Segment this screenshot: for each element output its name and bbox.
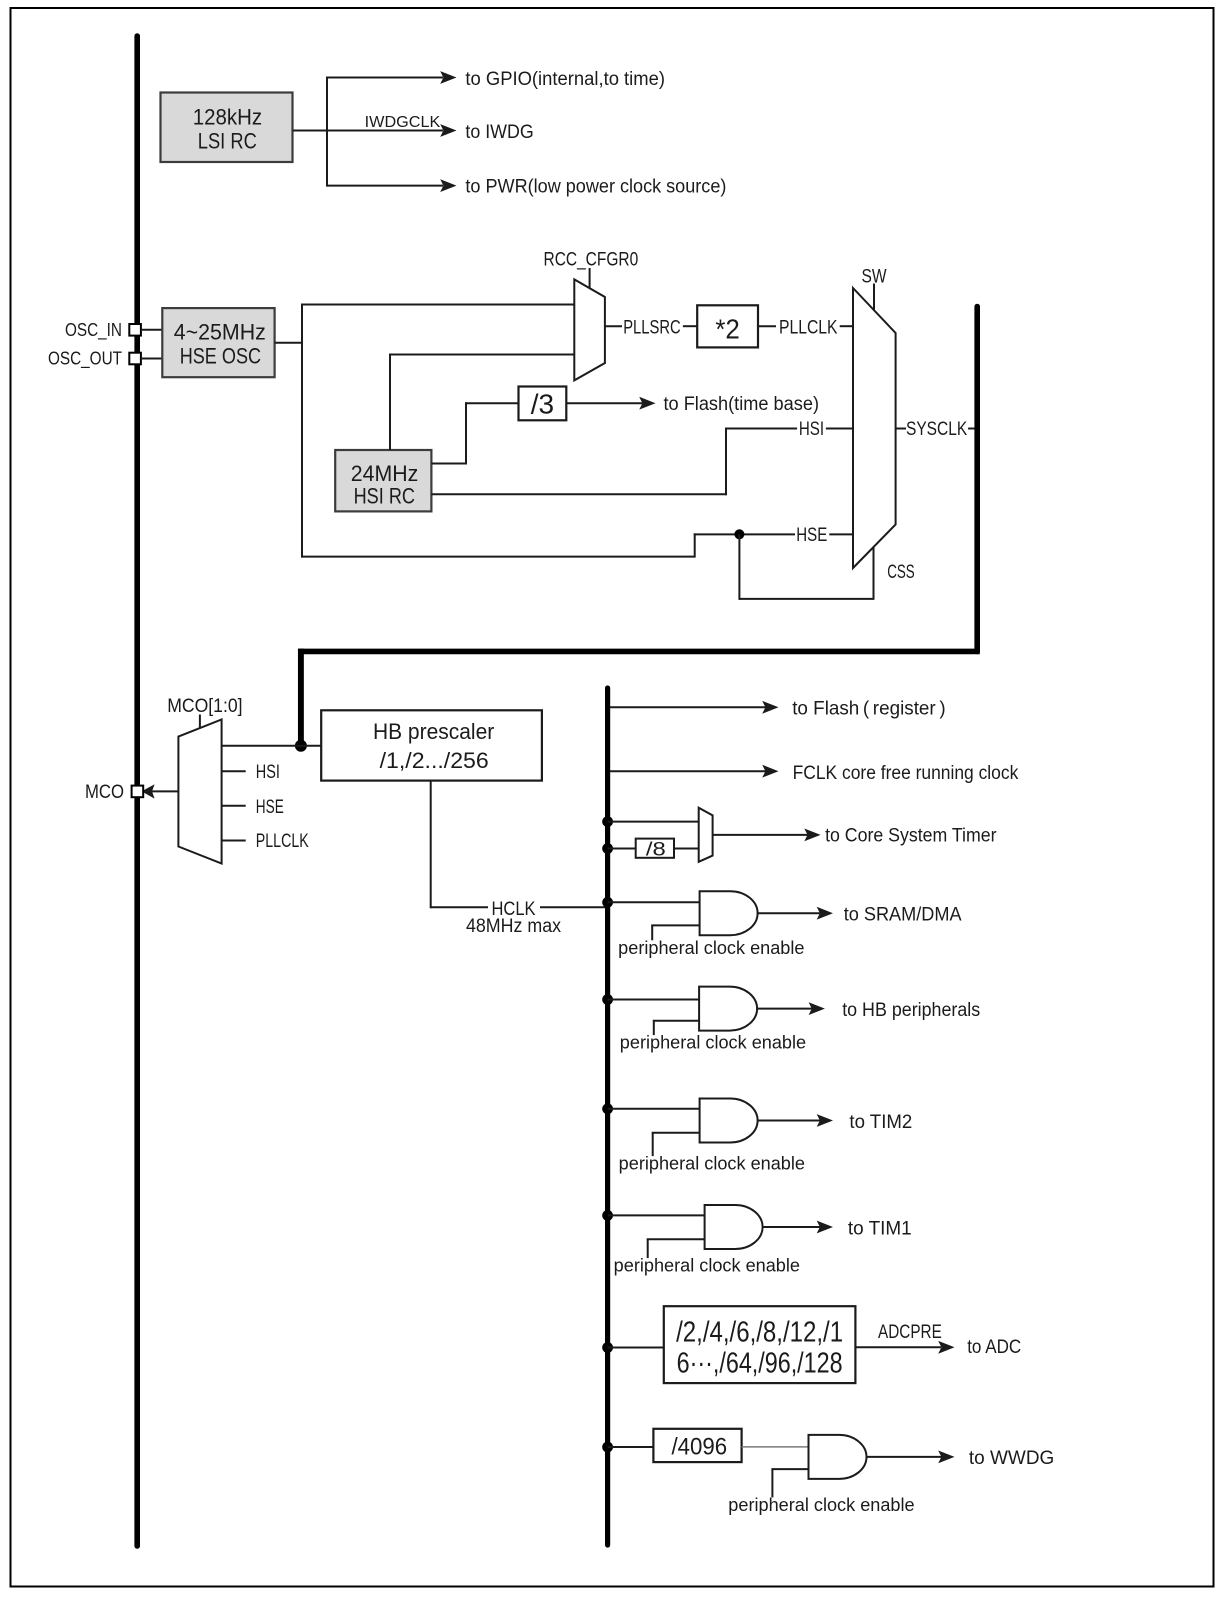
arrow to WWDG: [938, 1451, 954, 1464]
wire /4096 to WWDG gate: [742, 1446, 809, 1448]
wire enable input TIM2: [652, 1133, 654, 1156]
wire HSE into SW mux left part: [694, 533, 795, 535]
svg-text:to ADC: to ADC: [967, 1337, 1021, 1358]
wire HSE input to MCO mux: [222, 805, 246, 807]
oscillator block 128kHz LSI RC: [161, 93, 293, 163]
svg-text:peripheral clock enable: peripheral clock enable: [619, 1154, 805, 1174]
svg-text:HB prescaler: HB prescaler: [373, 719, 494, 744]
wire MCO[1:0] select into mux: [199, 715, 201, 732]
svg-text:ADCPRE: ADCPRE: [878, 1322, 942, 1343]
wire clock input TIM2: [608, 1108, 700, 1110]
wire enable input SRAM/DMA: [651, 925, 653, 940]
svg-text:128kHz: 128kHz: [193, 105, 262, 130]
wire HSI to /3 divider: [431, 463, 466, 465]
svg-text:to TIM2: to TIM2: [849, 1112, 912, 1133]
arrow to ADC: [938, 1341, 954, 1354]
svg-text:peripheral clock enable: peripheral clock enable: [620, 1033, 806, 1053]
arrow to PWR: [440, 179, 456, 192]
wire /3 to Flash time base: [566, 402, 642, 404]
wire CSS horizontal: [739, 598, 874, 600]
svg-text:/1,/2.../256: /1,/2.../256: [380, 748, 489, 773]
arrow MCO output (left): [142, 784, 155, 798]
wire timer direct input: [608, 821, 699, 823]
wire SW select into mux: [873, 284, 875, 312]
svg-text:*2: *2: [715, 314, 740, 345]
svg-text:24MHz: 24MHz: [351, 461, 419, 486]
svg-text:MCO: MCO: [85, 782, 124, 803]
wire SYSCLK to thick bus: [968, 428, 977, 430]
and-gate HB-peripherals: [699, 987, 757, 1031]
and-gate SRAM/DMA: [700, 891, 758, 935]
wire *2 to PLLCLK: [758, 325, 776, 327]
wire output TIM2: [757, 1120, 830, 1122]
SYSCLK thick bus drop to MCO/HB: [298, 649, 304, 746]
svg-text:to GPIO(internal,to time): to GPIO(internal,to time): [465, 69, 665, 90]
svg-text:/2,/4,/6,/8,/12,/1: /2,/4,/6,/8,/12,/1: [676, 1317, 843, 1349]
junction node ADC: [602, 1342, 613, 1353]
oscillator block 4~25MHz HSE OSC: [162, 308, 274, 377]
svg-text:peripheral clock enable: peripheral clock enable: [614, 1256, 800, 1276]
svg-text:to SRAM/DMA: to SRAM/DMA: [844, 905, 962, 926]
svg-text:to PWR(low power clock source): to PWR(low power clock source): [465, 177, 726, 198]
wire HB prescaler down: [430, 781, 432, 909]
wire HSE to PLL mux input 1: [302, 304, 574, 306]
and-gate WWDG: [809, 1435, 867, 1479]
multiplier *2 box: [697, 305, 758, 347]
svg-text:RCC_CFGR0: RCC_CFGR0: [544, 250, 639, 271]
wire clock input TIM1: [608, 1214, 705, 1216]
wire LSI output: [293, 130, 328, 132]
wire HCLK right segment: [540, 906, 608, 908]
wire HSE into SW mux right part: [829, 533, 853, 535]
svg-text:OSC_IN: OSC_IN: [65, 320, 122, 341]
and-gate TIM1: [705, 1205, 763, 1249]
AHB thick bus vertical: [605, 688, 610, 1545]
svg-text:/4096: /4096: [671, 1433, 727, 1460]
divider /8 box: [636, 839, 674, 858]
junction node timer direct: [602, 816, 613, 827]
svg-text:FCLK core free running clock: FCLK core free running clock: [793, 763, 1019, 784]
junction node TIM1: [602, 1210, 613, 1221]
wire LSI branch vertical: [326, 77, 328, 187]
wire output SRAM/DMA: [757, 912, 830, 914]
svg-text:HSE: HSE: [796, 525, 827, 546]
svg-text:to WWDG: to WWDG: [969, 1448, 1054, 1469]
wire CSS drop from mux bottom: [873, 548, 875, 599]
wire CSS up to HSE junction: [738, 534, 740, 600]
svg-text:MCO[1:0]: MCO[1:0]: [167, 696, 242, 717]
wire HSI input to MCO mux: [222, 770, 246, 772]
arrow TIM1: [817, 1221, 833, 1234]
mux MCO output selector: [178, 720, 221, 864]
svg-text:LSI RC: LSI RC: [198, 128, 257, 153]
wire HSE step up: [694, 533, 696, 557]
svg-text:to Core System Timer: to Core System Timer: [825, 826, 997, 847]
mux SW system clock selector: [853, 288, 896, 568]
svg-text:PLLCLK: PLLCLK: [779, 318, 838, 339]
wire IWDGCLK to IWDG: [327, 130, 443, 132]
svg-text:HSI RC: HSI RC: [354, 484, 415, 509]
SYSCLK thick bus vertical: [974, 307, 980, 652]
wire PLLCLK to SW mux: [840, 325, 853, 327]
junction node HSE/CSS: [734, 529, 744, 539]
wire to /8 divider: [608, 848, 636, 850]
arrow to IWDG: [440, 124, 456, 137]
svg-text:HSE OSC: HSE OSC: [180, 344, 261, 369]
arrow to Flash time base: [639, 397, 655, 410]
divider block ADC prescaler: [664, 1306, 856, 1383]
wire SYSCLK into MCO mux / HB prescaler: [222, 745, 321, 747]
svg-text:to Flash ( register ): to Flash ( register ): [792, 698, 945, 719]
wire FCLK: [610, 770, 766, 772]
svg-text:4~25MHz: 4~25MHz: [174, 319, 266, 344]
junction node WWDG: [602, 1442, 613, 1453]
wire ADCPRE output: [855, 1346, 941, 1348]
wire enable input TIM1: [647, 1239, 649, 1258]
arrow to Core System Timer: [804, 829, 820, 842]
svg-text:/8: /8: [646, 839, 666, 860]
wire to GPIO: [327, 77, 443, 79]
svg-text:to Flash(time base): to Flash(time base): [664, 394, 820, 415]
svg-text:HSI: HSI: [799, 419, 824, 440]
wire PLLSRC output: [605, 325, 622, 327]
junction node SRAM/DMA: [602, 897, 613, 908]
wire HSI to SW mux: [431, 493, 726, 495]
svg-text:PLLSRC: PLLSRC: [623, 318, 681, 339]
wire OSC_IN to HSE OSC: [141, 329, 163, 331]
wire output TIM1: [762, 1226, 830, 1228]
wire clock input HB-peripherals: [608, 999, 700, 1001]
svg-text:to TIM1: to TIM1: [848, 1219, 912, 1240]
svg-text:PLLCLK: PLLCLK: [256, 831, 309, 852]
wire HSE lower run to SW mux: [301, 556, 695, 558]
wire HCLK left segment: [431, 906, 488, 908]
wire enable input WWDG: [771, 1469, 773, 1497]
wire HSE output: [275, 342, 302, 344]
wire to PWR: [327, 185, 443, 187]
pin OSC_IN pad: [129, 324, 141, 336]
junction node HB-peripherals: [602, 994, 613, 1005]
wire HSI to PLL mux input 2 vertical: [389, 354, 391, 451]
junction node timer /8: [602, 843, 613, 854]
wire /8 to timer mux: [674, 848, 699, 850]
svg-text:HSI: HSI: [256, 762, 280, 783]
oscillator block 24MHz HSI RC: [335, 450, 431, 511]
svg-text:OSC_OUT: OSC_OUT: [48, 349, 122, 370]
svg-text:peripheral clock enable: peripheral clock enable: [618, 938, 804, 958]
pin MCO pad: [132, 786, 144, 798]
wire WWDG output: [866, 1456, 951, 1458]
divider /4096 box: [653, 1429, 741, 1462]
junction node SYSCLK at HB prescaler: [295, 740, 307, 752]
svg-text:SYSCLK: SYSCLK: [906, 419, 967, 440]
wire OSC_OUT to HSE OSC: [141, 358, 163, 360]
wire HSE vertical bus x=302: [301, 304, 303, 558]
arrow HB-peripherals: [809, 1002, 825, 1015]
SYSCLK thick bus horizontal: [298, 649, 980, 655]
main clock source bus (left thick vertical line): [134, 36, 140, 1546]
svg-text:/3: /3: [531, 388, 554, 419]
wire output HB-peripherals: [757, 1008, 822, 1010]
svg-text:6···,/64,/96,/128: 6···,/64,/96,/128: [677, 1348, 843, 1380]
svg-text:to HB peripherals: to HB peripherals: [842, 1000, 980, 1021]
wire HSI to PLL mux input 2 horizontal: [389, 354, 574, 356]
svg-text:CSS: CSS: [887, 562, 915, 583]
wire MCO output: [150, 790, 178, 792]
mux PLLSRC selector: [574, 279, 605, 380]
svg-text:peripheral clock enable: peripheral clock enable: [728, 1495, 914, 1515]
wire to Flash register: [610, 706, 766, 708]
svg-text:to IWDG: to IWDG: [465, 122, 533, 143]
arrow FCLK: [762, 765, 778, 778]
arrow to Flash register: [762, 701, 778, 714]
and-gate TIM2: [700, 1099, 758, 1143]
wire clock input SRAM/DMA: [608, 901, 700, 903]
wire PLLCLK input to MCO mux: [222, 840, 246, 842]
wire to /4096 divider: [608, 1446, 654, 1448]
svg-text:HSE: HSE: [256, 797, 284, 818]
wire PLLSRC to *2: [683, 325, 697, 327]
svg-text:48MHz max: 48MHz max: [466, 916, 561, 937]
arrow SRAM/DMA: [817, 907, 833, 920]
divider /3 box: [519, 387, 567, 421]
wire SYSCLK output: [896, 428, 906, 430]
svg-text:IWDGCLK: IWDGCLK: [365, 114, 441, 131]
mux core system timer selector: [699, 808, 713, 862]
junction node TIM2: [602, 1103, 613, 1114]
wire RCC_CFGR0 to PLL mux: [589, 268, 591, 290]
divider block HB prescaler: [321, 710, 542, 780]
pin OSC_OUT pad: [129, 353, 141, 365]
wire enable input HB-peripherals: [653, 1021, 655, 1035]
arrow to GPIO: [440, 71, 456, 84]
wire timer mux output: [713, 834, 809, 836]
wire to ADC prescaler: [608, 1347, 664, 1349]
arrow TIM2: [817, 1114, 833, 1127]
